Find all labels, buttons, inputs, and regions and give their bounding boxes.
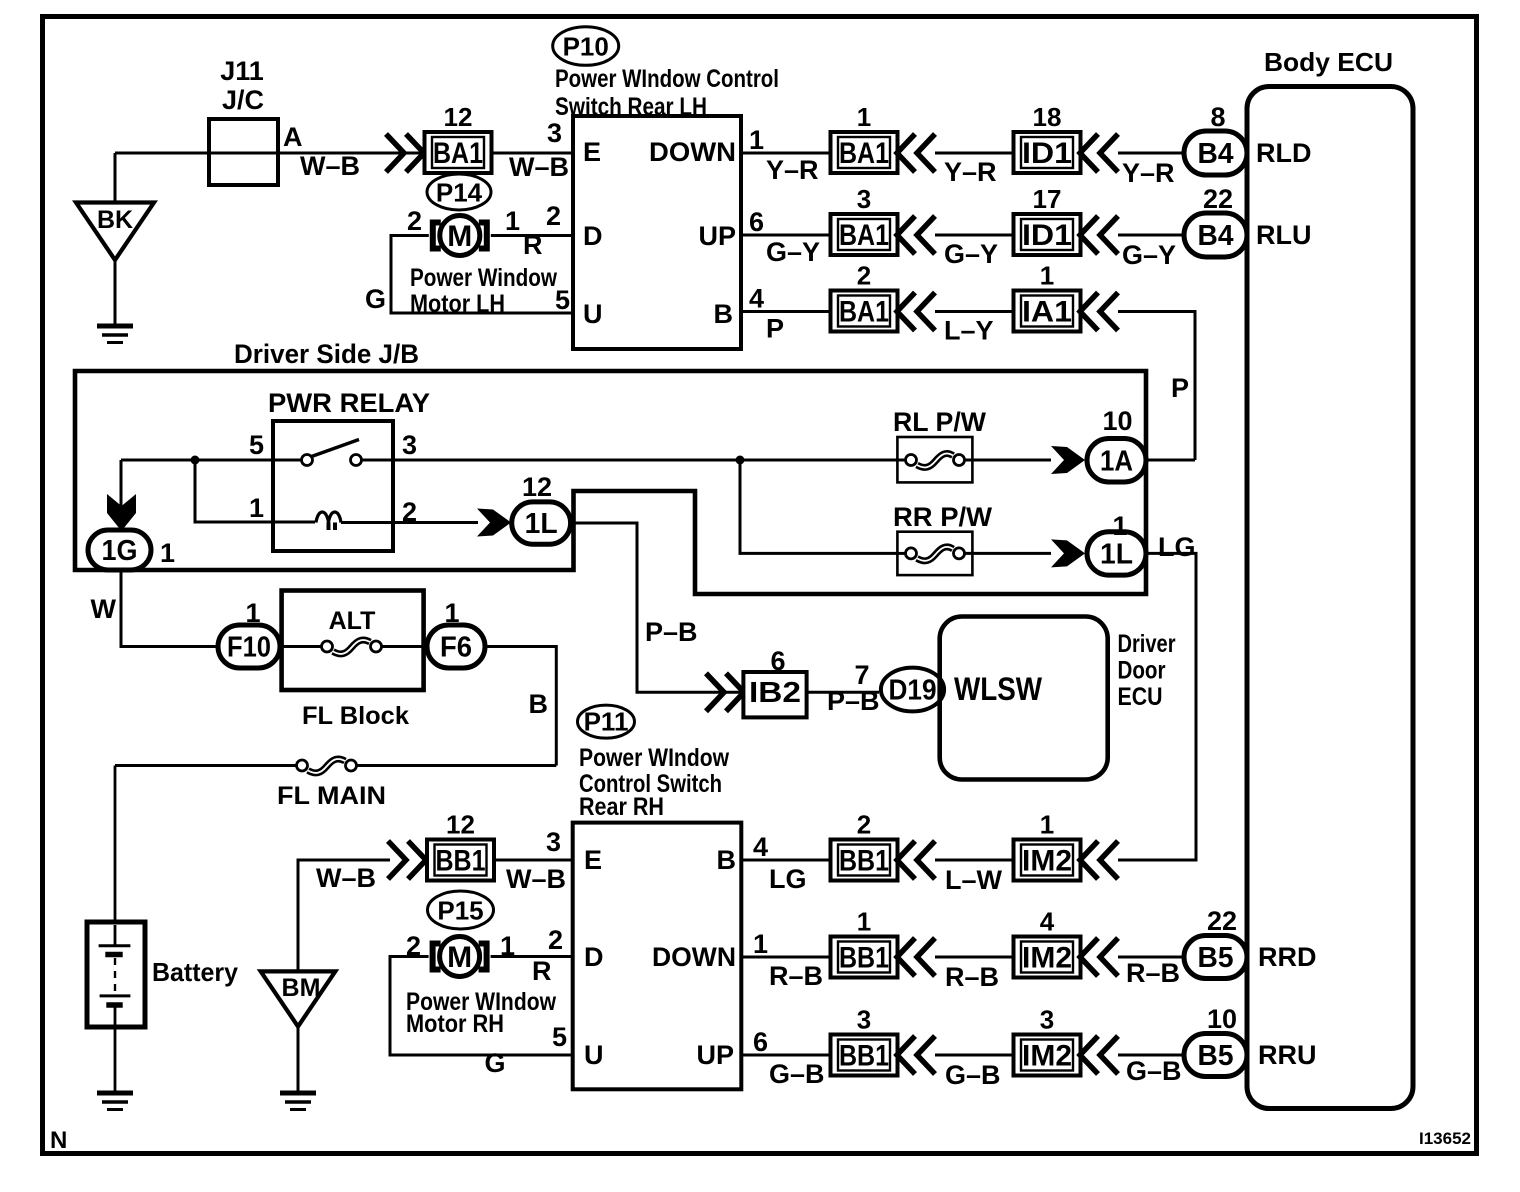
- wire B from F6 down to FL MAIN: [115, 647, 556, 766]
- wire switch to BB1: [741, 859, 831, 862]
- arrows after ID1: [1080, 216, 1118, 254]
- svg-text:1A: 1A: [1100, 445, 1133, 477]
- svg-text:1: 1: [1040, 810, 1054, 840]
- svg-text:ALT: ALT: [329, 607, 376, 635]
- arrows after ID1: [1080, 134, 1118, 172]
- svg-text:2: 2: [407, 206, 422, 236]
- connector 1G pin 1: [88, 530, 151, 570]
- arrows after BA1: [897, 293, 935, 331]
- switch P10 Power Window Control Switch Rear LH body: [573, 116, 741, 349]
- wire P-B from 1L to IB2: [571, 523, 744, 692]
- svg-text:22: 22: [1203, 184, 1233, 214]
- svg-text:17: 17: [1033, 184, 1062, 214]
- svg-text:Door: Door: [1118, 657, 1166, 685]
- svg-text:1: 1: [160, 538, 175, 568]
- arrows after IM2: [1080, 1036, 1118, 1074]
- caption Power Window Motor LH: [410, 264, 557, 318]
- wire bus into relay pin 5: [121, 459, 273, 462]
- svg-text:E: E: [584, 845, 602, 875]
- svg-text:Driver: Driver: [1118, 630, 1176, 658]
- svg-text:P11: P11: [584, 707, 629, 737]
- svg-text:FL Block: FL Block: [302, 702, 409, 730]
- svg-text:3: 3: [546, 827, 561, 857]
- svg-text:DOWN: DOWN: [652, 942, 736, 972]
- svg-text:N: N: [50, 1127, 67, 1154]
- motor P15 Power Window Motor RH: [433, 937, 487, 977]
- wire switch to BA1: [741, 152, 831, 155]
- wire 1A to P riser: [1146, 459, 1195, 462]
- svg-text:IM2: IM2: [1022, 942, 1072, 975]
- svg-text:1: 1: [245, 598, 260, 628]
- callout P10: [553, 27, 619, 66]
- caption Power WIndow Motor RH: [406, 988, 556, 1038]
- svg-text:12: 12: [446, 810, 475, 840]
- wire battery riser: [114, 766, 117, 947]
- svg-text:DOWN: DOWN: [649, 137, 736, 167]
- svg-text:G–B: G–B: [945, 1060, 1001, 1090]
- wire switch to BA1: [741, 234, 831, 237]
- svg-text:1: 1: [1040, 261, 1054, 291]
- wire W-B from BK riser to BA1 connector: [115, 152, 425, 155]
- svg-text:3: 3: [1040, 1005, 1054, 1035]
- arrows after BB1: [897, 841, 935, 879]
- svg-text:1: 1: [505, 206, 520, 236]
- svg-text:B: B: [714, 299, 734, 329]
- connector B5 pin 22: [1184, 936, 1247, 979]
- svg-text:6: 6: [753, 1027, 768, 1057]
- svg-text:D19: D19: [889, 675, 937, 707]
- connector B4 pin 22: [1184, 213, 1247, 257]
- svg-text:R: R: [532, 956, 552, 986]
- svg-text:U: U: [583, 299, 603, 329]
- junction J11 J/C: [209, 119, 278, 185]
- wire LG riser from 1L down to IM2 row: [1118, 553, 1196, 860]
- svg-text:R–B: R–B: [769, 961, 823, 991]
- svg-text:Y–R: Y–R: [1122, 158, 1175, 188]
- svg-text:ECU: ECU: [1118, 683, 1163, 711]
- svg-text:G–Y: G–Y: [766, 237, 820, 267]
- svg-text:G–B: G–B: [769, 1059, 825, 1089]
- motor P14 Power Window Motor LH: [433, 216, 487, 256]
- svg-text:2: 2: [548, 925, 563, 955]
- svg-text:BB1: BB1: [839, 845, 889, 878]
- svg-text:M: M: [447, 941, 472, 974]
- svg-text:D: D: [584, 942, 604, 972]
- wire W-B BB1 to switch E RH: [493, 859, 573, 862]
- svg-text:U: U: [584, 1040, 604, 1070]
- wire switch to BB1: [741, 956, 831, 959]
- svg-text:IM2: IM2: [1022, 845, 1072, 878]
- svg-text:IA1: IA1: [1022, 296, 1072, 329]
- svg-text:1: 1: [753, 929, 768, 959]
- svg-text:UP: UP: [698, 221, 736, 251]
- svg-text:ID1: ID1: [1022, 137, 1072, 170]
- svg-text:10: 10: [1207, 1004, 1237, 1034]
- svg-text:UP: UP: [696, 1040, 734, 1070]
- svg-text:RLU: RLU: [1256, 220, 1312, 250]
- solid arrow into 1L: [477, 509, 511, 537]
- ECU Body ECU body: [1247, 87, 1413, 1109]
- connector ID1 junction box: [1014, 214, 1081, 255]
- svg-text:P10: P10: [563, 32, 609, 62]
- connector arrow into IB2: [706, 673, 744, 711]
- svg-text:1: 1: [1112, 511, 1127, 541]
- svg-text:2: 2: [546, 201, 561, 231]
- connector BA1 junction box: [831, 291, 898, 332]
- wire riser BK to J/C row: [114, 153, 117, 203]
- svg-text:G: G: [365, 284, 386, 314]
- svg-text:8: 8: [1210, 102, 1225, 132]
- Driver Side J/B box outline: [75, 371, 1146, 594]
- svg-text:Motor RH: Motor RH: [406, 1010, 504, 1038]
- svg-text:P: P: [1171, 373, 1189, 403]
- svg-text:Power WIndow Control: Power WIndow Control: [555, 65, 779, 93]
- junction dot at RR branch: [736, 456, 745, 465]
- svg-text:G–Y: G–Y: [1122, 240, 1176, 270]
- svg-text:M: M: [447, 220, 472, 253]
- svg-text:Body ECU: Body ECU: [1264, 47, 1393, 77]
- arrows after BB1: [897, 938, 935, 976]
- connector BA1 junction box: [831, 214, 898, 255]
- wire relay pin 3 to RL fuse and beyond: [393, 459, 897, 462]
- svg-text:22: 22: [1207, 906, 1237, 936]
- wire motor LH ground loop to switch U: [391, 236, 573, 314]
- arrows after IM2: [1080, 841, 1118, 879]
- svg-text:B5: B5: [1198, 1040, 1234, 1072]
- callout P15: [428, 891, 494, 929]
- svg-text:E: E: [583, 137, 601, 167]
- connector BA1 junction box: [831, 132, 898, 173]
- wire BB1 to IM2: [935, 1054, 1015, 1057]
- svg-text:WLSW: WLSW: [954, 671, 1043, 707]
- svg-text:W–B: W–B: [509, 152, 569, 182]
- svg-text:I13652: I13652: [1419, 1129, 1471, 1148]
- junction dot left bus: [191, 456, 200, 465]
- wire W-B BA1 to switch E: [491, 152, 573, 155]
- svg-text:Motor LH: Motor LH: [410, 290, 505, 318]
- svg-text:2: 2: [857, 261, 871, 291]
- svg-text:4: 4: [749, 284, 764, 314]
- svg-text:4: 4: [1040, 907, 1055, 937]
- wire to B5: [1118, 956, 1184, 959]
- ground below battery: [97, 1093, 133, 1110]
- connector IM2 junction box: [1014, 937, 1081, 978]
- svg-text:RR P/W: RR P/W: [893, 502, 993, 532]
- svg-text:1: 1: [444, 598, 459, 628]
- svg-text:2: 2: [857, 810, 871, 840]
- svg-text:12: 12: [444, 102, 473, 132]
- svg-text:W–B: W–B: [300, 151, 360, 181]
- wire motor RH to switch D: [491, 955, 573, 958]
- arrows after BB1: [897, 1036, 935, 1074]
- connector 1L pin 12: [512, 502, 571, 544]
- svg-text:J11: J11: [220, 56, 264, 86]
- svg-text:LG: LG: [1158, 532, 1196, 562]
- wire IB2 to D19: [807, 691, 879, 694]
- svg-text:Rear RH: Rear RH: [579, 793, 664, 821]
- svg-text:G–Y: G–Y: [944, 239, 998, 269]
- svg-text:BB1: BB1: [839, 942, 889, 975]
- svg-text:F10: F10: [227, 632, 271, 664]
- connector F6 pin 1: [427, 625, 485, 668]
- svg-text:6: 6: [770, 646, 785, 676]
- svg-text:6: 6: [749, 207, 764, 237]
- callout P11: [578, 705, 635, 738]
- relay switch contacts: [273, 440, 393, 466]
- connector ID1 junction box: [1014, 132, 1081, 173]
- svg-text:P–B: P–B: [645, 617, 698, 647]
- svg-text:1: 1: [249, 493, 264, 523]
- svg-text:5: 5: [555, 285, 570, 315]
- svg-text:1L: 1L: [1100, 538, 1133, 570]
- svg-text:G–B: G–B: [1126, 1056, 1182, 1086]
- caption Power WIndow Control Switch Rear LH: [555, 65, 779, 121]
- wire to B4: [1118, 152, 1184, 155]
- svg-text:5: 5: [552, 1022, 567, 1052]
- svg-text:5: 5: [249, 430, 264, 460]
- svg-text:IM2: IM2: [1022, 1040, 1072, 1073]
- svg-text:P–B: P–B: [827, 686, 880, 716]
- svg-text:RRD: RRD: [1258, 942, 1317, 972]
- svg-text:B: B: [529, 689, 549, 719]
- wire to relay coil pin 1: [195, 460, 315, 522]
- ground-feed arrow into 1G: [120, 460, 123, 507]
- svg-text:1G: 1G: [102, 535, 138, 567]
- svg-text:L–Y: L–Y: [944, 316, 994, 346]
- svg-text:P: P: [766, 314, 784, 344]
- svg-text:W: W: [91, 594, 117, 624]
- svg-text:BB1: BB1: [436, 845, 486, 878]
- wire BK to ground: [114, 260, 117, 326]
- connector arrow into BB1: [388, 841, 426, 879]
- connector arrow into BA1: [386, 134, 424, 172]
- connector BB1 junction box: [427, 840, 494, 881]
- ground below BK: [97, 326, 133, 343]
- svg-text:F6: F6: [440, 632, 472, 664]
- arrows after IM2: [1080, 938, 1118, 976]
- svg-text:1: 1: [749, 125, 764, 155]
- svg-text:3: 3: [402, 430, 417, 460]
- ground shield triangle BK: [76, 203, 154, 261]
- svg-text:Battery: Battery: [152, 957, 239, 987]
- svg-text:3: 3: [857, 1005, 871, 1035]
- connector D19: [881, 668, 944, 712]
- svg-text:BA1: BA1: [839, 137, 889, 170]
- wire BA1 to ID1: [935, 234, 1014, 237]
- fuse RL P/W: [893, 407, 1051, 482]
- connector 1A pin 10: [1087, 439, 1146, 483]
- switch P11 Power Window Control Switch Rear RH body: [573, 823, 742, 1090]
- svg-text:Power WIndow: Power WIndow: [579, 744, 729, 772]
- ground below BM: [280, 1093, 316, 1110]
- svg-text:Driver Side J/B: Driver Side J/B: [234, 339, 419, 369]
- fuse RR P/W: [893, 502, 1051, 575]
- wire BA1 to ID1: [935, 152, 1014, 155]
- wire BB1 to IM2: [935, 859, 1015, 862]
- arrows after IA1: [1080, 293, 1118, 331]
- battery: [87, 922, 145, 1027]
- wire W from 1G down to FL block: [121, 570, 218, 647]
- svg-text:12: 12: [522, 472, 552, 502]
- connector 1L pin 1 lower: [1087, 532, 1146, 575]
- svg-text:W–B: W–B: [316, 863, 376, 893]
- wire to B5: [1118, 1054, 1184, 1057]
- ECU WLSW Driver Door ECU: [940, 617, 1108, 780]
- connector BB1 junction box: [831, 1035, 898, 1076]
- svg-text:Y–R: Y–R: [766, 155, 819, 185]
- svg-text:BM: BM: [282, 974, 321, 1002]
- connector IB2 pin 6: [743, 672, 806, 717]
- svg-text:L–W: L–W: [945, 865, 1003, 895]
- svg-text:B: B: [717, 845, 737, 875]
- svg-text:B5: B5: [1198, 942, 1234, 974]
- caption Power WIndow Control Switch Rear RH: [579, 744, 729, 821]
- svg-text:1: 1: [857, 907, 871, 937]
- svg-text:3: 3: [857, 184, 871, 214]
- solid arrow into 1L lower: [1051, 539, 1085, 567]
- svg-text:RLD: RLD: [1256, 138, 1312, 168]
- svg-text:BK: BK: [97, 206, 133, 234]
- wire branch down to RR fuse: [740, 460, 897, 553]
- wire BA1 to IA1: [935, 310, 1014, 313]
- connector B4 pin 8: [1184, 131, 1247, 175]
- svg-text:BA1: BA1: [839, 219, 889, 252]
- arrows after BA1: [897, 216, 935, 254]
- wire motor RH ground loop to switch U: [390, 957, 573, 1056]
- svg-text:J/C: J/C: [222, 85, 264, 115]
- connector BB1 junction box: [831, 937, 898, 978]
- svg-text:R–B: R–B: [1126, 958, 1180, 988]
- svg-text:LG: LG: [769, 864, 807, 894]
- fusible link FL MAIN: [297, 759, 357, 773]
- svg-text:10: 10: [1102, 406, 1132, 436]
- wire switch to BA1: [741, 310, 831, 313]
- connector F10 pin 1: [218, 625, 280, 668]
- svg-text:BA1: BA1: [839, 296, 889, 329]
- svg-text:P14: P14: [436, 178, 483, 208]
- svg-text:RRU: RRU: [1258, 1040, 1317, 1070]
- svg-text:ID1: ID1: [1022, 219, 1072, 252]
- svg-text:BA1: BA1: [433, 137, 483, 170]
- svg-text:P15: P15: [437, 896, 483, 926]
- svg-text:FL MAIN: FL MAIN: [277, 782, 386, 810]
- wire BM to ground: [297, 1027, 300, 1093]
- wire motor LH to switch D: [491, 234, 573, 237]
- svg-text:R–B: R–B: [945, 962, 999, 992]
- svg-text:Y–R: Y–R: [944, 157, 997, 187]
- wire riser BM to BB1 row: [298, 860, 390, 971]
- connector IA1 junction box: [1014, 291, 1081, 332]
- svg-text:BB1: BB1: [839, 1040, 889, 1073]
- connector BA1 junction box: [425, 132, 492, 173]
- svg-text:R: R: [523, 230, 543, 260]
- connector BB1 junction box: [831, 840, 898, 881]
- svg-text:W–B: W–B: [506, 864, 566, 894]
- connector IM2 junction box: [1014, 1035, 1081, 1076]
- svg-text:IB2: IB2: [749, 677, 801, 709]
- svg-text:PWR RELAY: PWR RELAY: [268, 388, 430, 418]
- svg-text:3: 3: [547, 118, 562, 148]
- svg-text:18: 18: [1033, 102, 1062, 132]
- svg-text:1L: 1L: [525, 508, 558, 540]
- svg-text:B4: B4: [1198, 138, 1234, 170]
- relay PWR RELAY box: [273, 421, 393, 551]
- wire battery to ground: [114, 1026, 117, 1092]
- svg-text:B4: B4: [1198, 220, 1234, 252]
- svg-text:D: D: [583, 221, 603, 251]
- relay coil: [316, 512, 393, 530]
- wire relay pin 2 to 1L: [393, 521, 478, 524]
- connector B5 pin 10: [1184, 1034, 1247, 1077]
- wire to B4: [1118, 234, 1184, 237]
- svg-text:G: G: [485, 1048, 506, 1078]
- wire BB1 to IM2: [935, 956, 1015, 959]
- svg-text:RL P/W: RL P/W: [893, 407, 987, 437]
- wire from IA1 arrows to P riser: [1118, 312, 1195, 461]
- caption Driver Door ECU: [1118, 630, 1176, 711]
- fuse block ALT: [280, 591, 427, 691]
- arrows after BA1: [897, 134, 935, 172]
- svg-text:Power Window: Power Window: [410, 264, 557, 292]
- svg-text:4: 4: [753, 832, 768, 862]
- svg-text:1: 1: [857, 102, 871, 132]
- ground shield triangle BM: [261, 971, 336, 1026]
- wire switch to BB1: [741, 1054, 831, 1057]
- solid arrow into 1A: [1051, 446, 1085, 474]
- callout P14: [427, 174, 491, 210]
- connector IM2 junction box: [1014, 840, 1081, 881]
- svg-text:A: A: [283, 122, 303, 152]
